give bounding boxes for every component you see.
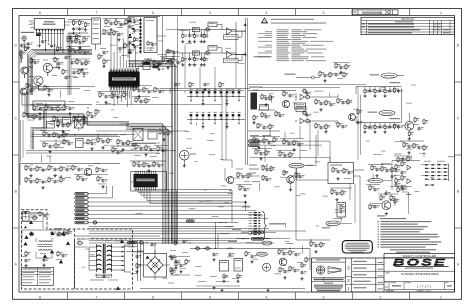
headphone bias transistor bbox=[382, 201, 391, 210]
svg-text:BOSE: BOSE bbox=[393, 257, 447, 267]
extra mixer parts bbox=[302, 90, 303, 92]
svg-text:PC BOARD, BOSE WAVE RADIO: PC BOARD, BOSE WAVE RADIO bbox=[401, 273, 439, 276]
pills near filter exit bbox=[249, 140, 260, 143]
bus junction arrows bbox=[244, 23, 247, 26]
small pill on bus bbox=[186, 220, 194, 222]
decoupling parts above U1 bbox=[103, 51, 105, 52]
IF transformer cluster bbox=[133, 129, 143, 141]
channel join verticals bbox=[235, 22, 237, 60]
AM row wire pair bbox=[30, 86, 95, 88]
revision status box bbox=[352, 10, 398, 15]
BOSE logo bbox=[393, 257, 447, 267]
svg-text:4: 4 bbox=[266, 11, 268, 15]
line out lower bbox=[390, 118, 401, 119]
AM tuning cluster bbox=[20, 163, 120, 165]
AC line entry bbox=[23, 212, 30, 222]
band select cluster bbox=[249, 87, 262, 88]
T2 right-side parts bbox=[114, 240, 122, 243]
chain column extra dark bits bbox=[128, 21, 131, 23]
under-U1 extra parts bbox=[99, 92, 101, 93]
right mid lower parts bbox=[403, 142, 405, 143]
bus drop to IF bbox=[67, 33, 69, 95]
svg-text:7: 7 bbox=[96, 11, 98, 15]
power transformer T2 core bbox=[97, 246, 102, 247]
IC U1 bottom wires bbox=[109, 90, 111, 92]
bottom-left AM detail row bbox=[77, 175, 79, 176]
filter row 1 bbox=[187, 96, 245, 98]
primary dashed enclosure (L-shape) bbox=[21, 210, 132, 289]
warning triangles power bbox=[29, 220, 33, 224]
T2 lead wires bbox=[89, 246, 97, 248]
mid horizontal tie wires bbox=[96, 104, 222, 106]
power amp drop wires bbox=[354, 184, 356, 224]
main centre bus: horizontal band to vertical drop bbox=[129, 60, 172, 243]
audio channel B bbox=[177, 52, 236, 54]
RF section passives bbox=[30, 58, 32, 59]
bus labels right bbox=[218, 222, 227, 223]
line cord assembly label bbox=[254, 56, 271, 57]
transistor Q3 bbox=[21, 67, 28, 74]
svg-text:3: 3 bbox=[323, 11, 325, 15]
parts above U2 bbox=[133, 161, 135, 162]
power rail pills bbox=[252, 231, 264, 234]
supply junction parts bbox=[310, 241, 312, 242]
rectifier input parts bbox=[137, 240, 139, 281]
wires pills to right bbox=[259, 140, 330, 142]
top tile crossing wires bbox=[248, 84, 366, 86]
wire bus centre vertical pair bbox=[221, 92, 223, 160]
safety controlled banner bbox=[384, 257, 455, 259]
notes list bbox=[377, 215, 385, 216]
svg-text:2: 2 bbox=[380, 295, 382, 299]
signal pills column bbox=[75, 193, 88, 196]
parts under chain x132-150 bbox=[133, 86, 135, 87]
driver transistor bbox=[287, 176, 295, 184]
mixer opamps bbox=[300, 94, 304, 99]
stereo decoder parts bbox=[117, 139, 119, 140]
long vertical bus centre bbox=[168, 191, 170, 245]
verticals right of channels bbox=[247, 18, 249, 165]
IF strip component chain bbox=[129, 17, 131, 18]
svg-text:4: 4 bbox=[266, 295, 268, 299]
secondary dashed divider bbox=[74, 239, 76, 289]
revision rows text bbox=[368, 23, 414, 24]
warning triangle optical note bbox=[261, 17, 268, 23]
oscillator cluster bbox=[143, 64, 150, 70]
svg-text:1: 1 bbox=[440, 11, 442, 15]
approval stamp bbox=[342, 241, 372, 253]
svg-text:6: 6 bbox=[152, 11, 154, 15]
horizontal tie pair mid bbox=[32, 133, 136, 135]
wire from audio to right edge bbox=[244, 68, 246, 90]
dwg title text bbox=[384, 270, 455, 272]
headphone amp opamps bbox=[407, 165, 411, 170]
bus bundle C vertical bbox=[126, 124, 163, 245]
connector area labels bbox=[29, 20, 33, 23]
FM antenna jack bbox=[22, 36, 26, 40]
title block number row bbox=[384, 281, 455, 283]
svg-text:3: 3 bbox=[323, 295, 325, 299]
power amp box bbox=[328, 163, 354, 184]
horizontal tie y157 bbox=[250, 157, 330, 159]
left column parts PSU bbox=[25, 251, 27, 252]
U2 surrounding box bbox=[131, 172, 167, 192]
left edge long verticals bbox=[20, 120, 22, 162]
bus from U2 to right bbox=[135, 189, 232, 192]
wires power amp to jack bbox=[297, 168, 329, 180]
parts list text block bbox=[277, 28, 289, 31]
demod parts bbox=[319, 71, 321, 72]
antenna coupling cap bbox=[27, 42, 29, 43]
RF mid parts row bbox=[71, 61, 73, 62]
revisions table bbox=[361, 17, 455, 34]
note text lines bbox=[271, 19, 314, 20]
IF coil can bbox=[75, 117, 84, 128]
buffer transistor Q10 bbox=[405, 121, 414, 130]
IC U1 white label notch bbox=[112, 78, 136, 81]
extra labels scatter bbox=[32, 86, 38, 89]
cluster right of film demod bbox=[335, 63, 337, 64]
bridge surroundings extra bbox=[171, 257, 173, 258]
labels near bottom centre bbox=[198, 280, 206, 283]
power switch / fuse parts bbox=[32, 217, 33, 219]
svg-text:8: 8 bbox=[39, 295, 41, 299]
svg-text:1 7 7 1 7 1: 1 7 7 1 7 1 bbox=[417, 285, 432, 289]
bus staircase B bbox=[31, 110, 44, 150]
left margin small parts bbox=[21, 44, 23, 45]
svg-text:6: 6 bbox=[152, 295, 154, 299]
IC U2 pins bbox=[134, 171, 136, 174]
channel drop verticals bbox=[184, 45, 186, 89]
connector J1 block bbox=[34, 19, 64, 30]
thermal fuse bbox=[77, 242, 78, 244]
headphone left oval + parts bbox=[368, 178, 382, 183]
varactor cluster bbox=[63, 118, 71, 125]
to-tuner labels bbox=[249, 165, 257, 166]
lower horizontal bus group bbox=[89, 225, 232, 227]
title block row numbers bbox=[345, 275, 351, 277]
corner parts lower-left of centre bbox=[128, 241, 137, 243]
svg-text:5: 5 bbox=[209, 295, 211, 299]
right mid chain bbox=[337, 98, 339, 99]
IC U1 pin stubs bbox=[109, 69, 111, 72]
small caps below connector bbox=[42, 40, 44, 41]
display connector pins bbox=[249, 212, 252, 213]
fuse + switch parts bbox=[29, 233, 30, 235]
ground rail bottom centre bbox=[140, 288, 305, 290]
front-end parts bbox=[73, 20, 75, 21]
coil can bbox=[180, 150, 190, 160]
verticals into PSU rail bbox=[215, 222, 217, 248]
svg-text:1: 1 bbox=[440, 295, 442, 299]
svg-text:8: 8 bbox=[39, 11, 41, 15]
inter-stage bus pair y88 bbox=[160, 87, 250, 89]
title block outline bbox=[312, 258, 455, 292]
FM antenna label bbox=[21, 32, 35, 33]
vertical pair feed to channels bbox=[156, 17, 158, 40]
IC U2 body bbox=[134, 174, 158, 187]
T2 bottom labels bbox=[90, 279, 104, 282]
regulator chain bbox=[190, 247, 310, 249]
AM loop box bbox=[33, 101, 65, 110]
connector J1 pin wires bbox=[36, 31, 38, 36]
regulator right parts bbox=[279, 258, 287, 266]
discriminator cluster bbox=[76, 139, 84, 148]
title block left: speaker drawing cell bbox=[344, 258, 346, 292]
headphone centre column parts bbox=[397, 157, 399, 158]
svg-text:SHEET 1 OF 2: SHEET 1 OF 2 bbox=[417, 291, 432, 293]
audio channel A bbox=[177, 29, 236, 31]
line cord table bbox=[21, 267, 53, 285]
zone ticks right bbox=[455, 81, 462, 83]
IC U2 label strip bbox=[137, 179, 155, 182]
mid-left row3 parts bbox=[23, 112, 25, 113]
extra wire stubs scatter bbox=[60, 90, 62, 98]
long verticals right of centre bbox=[231, 190, 233, 222]
filter row 2 bbox=[187, 119, 245, 121]
line transformer T1 bbox=[39, 241, 42, 242]
transistor Q2 bbox=[34, 76, 43, 85]
front-end extra parts bbox=[67, 37, 69, 38]
oval label near power amp bbox=[289, 163, 304, 168]
FL-20A oval bbox=[370, 74, 380, 75]
mute transistor Q20 bbox=[227, 176, 234, 183]
T1 secondary parts bbox=[35, 252, 37, 259]
main wire bus left bbox=[28, 50, 93, 96]
mid-left passives row1 bbox=[33, 105, 35, 106]
oval label lower bbox=[326, 221, 340, 226]
zone ticks top bbox=[67, 9, 69, 16]
tuner front-end box bbox=[92, 18, 101, 44]
zone ticks left bbox=[13, 81, 20, 83]
title block approvals column bbox=[352, 264, 384, 266]
bus staircase A bbox=[25, 92, 129, 122]
vertical ties mixers to filter bbox=[269, 130, 271, 137]
FM link oval 2 bbox=[368, 112, 378, 113]
bridge rectifier box bbox=[144, 254, 167, 278]
IF filter network below mixers bbox=[253, 137, 255, 138]
oscillator cluster extension bbox=[162, 57, 164, 58]
power amp lower parts bbox=[331, 189, 333, 190]
svg-text:7: 7 bbox=[96, 295, 98, 299]
bridge caps bbox=[136, 255, 138, 256]
mid-left cluster x42-70 y120-150 bbox=[47, 122, 55, 129]
bridge rectifier diamond bbox=[147, 257, 163, 274]
headphone jack contacts bbox=[425, 164, 428, 165]
svg-text:5: 5 bbox=[209, 11, 211, 15]
IC U1 body bbox=[109, 72, 140, 86]
transistor Q1 bbox=[43, 63, 52, 72]
cluster above U1 bbox=[105, 19, 107, 20]
zone ticks bottom bbox=[67, 292, 69, 299]
misc arrows bbox=[167, 67, 169, 69]
IC U1 top fan-out wires bbox=[110, 31, 112, 69]
RF wires bbox=[20, 49, 22, 63]
connector J1 pins bbox=[36, 29, 38, 31]
line out upper bbox=[390, 82, 401, 83]
bus band components overlay bbox=[144, 62, 151, 65]
film demod label bbox=[285, 74, 296, 75]
IF strip box bbox=[144, 18, 157, 53]
right bus vertical x358 bbox=[357, 86, 359, 160]
trimmer ladder bbox=[139, 19, 141, 21]
